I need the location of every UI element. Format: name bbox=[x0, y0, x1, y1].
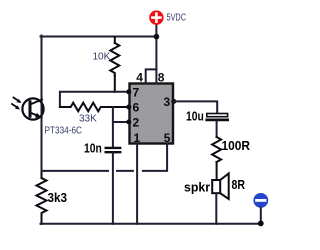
resistor R3 100R bbox=[212, 137, 221, 180]
speaker LS1 bbox=[212, 173, 229, 199]
capacitor C1 10n bbox=[106, 148, 121, 152]
transistor Q1 phototransistor symbol bbox=[22, 98, 43, 119]
resistor R1 10K bbox=[110, 37, 119, 92]
svg-text:10n: 10n bbox=[84, 141, 102, 156]
node: ground rail end junction dot bbox=[258, 221, 264, 227]
svg-text:100R: 100R bbox=[222, 138, 251, 153]
wire: pin 5 segment between crossovers bbox=[117, 170, 133, 172]
svg-text:10K: 10K bbox=[93, 52, 111, 63]
wire: bottom ground rail bbox=[41, 223, 261, 225]
pin 6 junction dot bbox=[126, 105, 131, 110]
svg-text:8: 8 bbox=[158, 71, 165, 85]
wire: negative terminal to ground rail bbox=[260, 208, 262, 224]
wire: left rail from top rail down through phototransistor to lower junction bbox=[41, 36, 43, 173]
wire: pin 2 stub bbox=[113, 121, 129, 123]
wire: 10n capacitor to ground rail bbox=[112, 153, 114, 224]
wire: pins 6-2 junction down to 10n capacitor bbox=[112, 107, 114, 147]
svg-text:2: 2 bbox=[133, 116, 140, 130]
light arrow upper into phototransistor bbox=[14, 98, 22, 104]
battery negative terminal bbox=[253, 193, 268, 208]
battery positive terminal 5VDC bbox=[149, 10, 163, 24]
pin 2 junction dot bbox=[126, 120, 131, 125]
wire: 10u to 100R bbox=[216, 121, 218, 137]
resistor R2 33K bbox=[60, 103, 129, 112]
svg-text:spkr: spkr bbox=[184, 180, 210, 195]
svg-text:3k3: 3k3 bbox=[48, 190, 68, 205]
svg-text:10u: 10u bbox=[186, 109, 204, 124]
svg-text:33K: 33K bbox=[79, 114, 97, 125]
wire: pin 5 segment to left rail bbox=[42, 170, 109, 172]
wire: speaker to ground rail bbox=[215, 193, 217, 224]
capacitor C2 10u electrolytic bbox=[207, 114, 228, 120]
node: supply junction dot bbox=[154, 34, 160, 40]
wire: pin 8 up to supply junction bbox=[155, 25, 157, 84]
light arrow lower into phototransistor bbox=[12, 104, 20, 110]
svg-text:7: 7 bbox=[133, 86, 140, 100]
pin 3 junction dot bbox=[171, 99, 176, 104]
svg-text:5VDC: 5VDC bbox=[167, 13, 187, 24]
svg-text:4: 4 bbox=[136, 71, 143, 85]
op-amp U1 555 timer body bbox=[130, 84, 174, 144]
pin 7 junction dot bbox=[126, 89, 131, 94]
wire: pin 7 to 10K / loop over to 33K bbox=[60, 92, 129, 107]
svg-text:3: 3 bbox=[164, 95, 171, 109]
wire: pin 4 strap up and over to pin 8 line bbox=[146, 69, 157, 83]
resistor R4 3k3 bbox=[37, 171, 47, 224]
svg-text:8R: 8R bbox=[232, 177, 246, 192]
wire: top positive supply rail bbox=[41, 36, 158, 38]
wire: pin 5 down and left to phototransistor/3k3 junction (with crossover gaps) bbox=[143, 144, 167, 171]
wire: pin 3 output to 10u capacitor bbox=[174, 101, 217, 113]
wire: pin 1 to ground rail bbox=[136, 144, 138, 224]
svg-text:6: 6 bbox=[133, 101, 140, 115]
svg-text:PT334-6C: PT334-6C bbox=[45, 126, 83, 137]
